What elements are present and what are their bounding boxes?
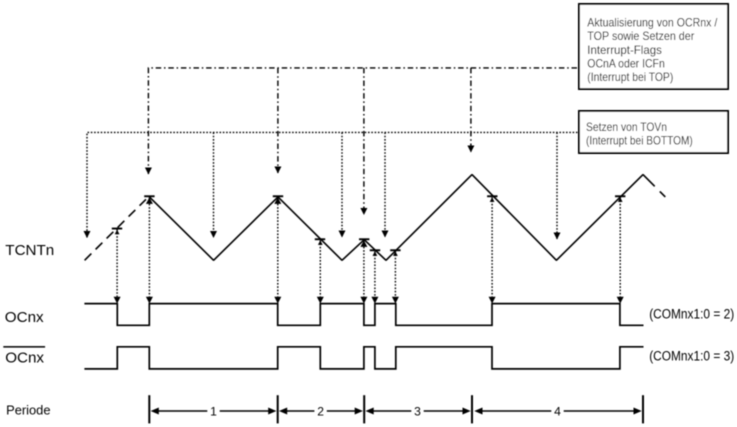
svg-text:OCnx: OCnx bbox=[5, 309, 44, 326]
node: period divider bar 1 bbox=[148, 395, 150, 423]
wire: compare connector 4 bbox=[319, 240, 321, 297]
wire: period 3 arrow line right bbox=[424, 410, 464, 412]
SECTION:LABELS bbox=[586, 16, 718, 148]
arrowhead: period 4 right bbox=[634, 408, 642, 415]
arrowhead: down at OCnx 8 bbox=[489, 297, 496, 304]
node: compare tick on rising slope to tall peak 2 bbox=[615, 195, 625, 197]
arrowhead: up at peak 2 tick bbox=[274, 197, 281, 204]
node: period divider bar 4 bbox=[471, 395, 473, 423]
arrowhead: TOP event at small peak bbox=[360, 208, 367, 215]
arrowhead: period 2 left bbox=[279, 408, 287, 415]
svg-text:2: 2 bbox=[317, 405, 324, 419]
svg-text:TOP sowie Setzen der: TOP sowie Setzen der bbox=[587, 29, 694, 43]
arrowhead: BOTTOM event at valley 1 bbox=[210, 231, 217, 238]
arrowhead: down at OCnx 1 bbox=[114, 297, 121, 304]
arrowhead: down at OCnx 4 bbox=[317, 297, 324, 304]
wire: dash-dot horizontal event line (OCRnx/TOP update) bbox=[148, 68, 578, 174]
wire: dotted arrow drop to valley 2a bbox=[341, 132, 343, 237]
svg-text:(COMnx1:0 = 3): (COMnx1:0 = 3) bbox=[649, 349, 734, 364]
node: period divider bar 3 bbox=[363, 395, 365, 423]
arrowhead: BOTTOM event at valley 3 bbox=[554, 233, 561, 240]
svg-text:TCNTn: TCNTn bbox=[5, 242, 54, 259]
arrowhead: up at tick 9 bbox=[618, 197, 623, 202]
wire: dotted arrow drop to valley 1 bbox=[213, 132, 215, 237]
arrowhead: up at small peak tick bbox=[360, 240, 367, 247]
arrowhead: up at tick 4 bbox=[318, 240, 323, 245]
wire: OCnx output waveform (COMnx1:0 = 2) bbox=[84, 304, 643, 326]
wire: TCNTn trailing dash bbox=[660, 191, 666, 197]
SECTION:AXIS bbox=[148, 395, 644, 423]
wire: compare connector 5 (small peak) bbox=[363, 240, 365, 297]
arrowhead: up at peak 1 tick bbox=[146, 197, 153, 204]
node: period divider bar 5 bbox=[642, 395, 644, 423]
wire: period 2 arrow line left bbox=[286, 410, 314, 412]
wire: period 1 arrow line right bbox=[220, 410, 270, 412]
wire: dash-dot arrow drop to tall peak bbox=[470, 68, 472, 152]
node: TOP tick at peak 2 bbox=[273, 195, 283, 197]
wire: compare connector 6 bbox=[374, 251, 376, 297]
svg-text:(Interrupt bei TOP): (Interrupt bei TOP) bbox=[587, 70, 673, 84]
svg-text:OCnA oder ICFn: OCnA oder ICFn bbox=[587, 57, 665, 71]
wire: compare connector 7 bbox=[394, 251, 396, 297]
wire: period 3 arrow line left bbox=[373, 410, 412, 412]
wire: dash-dot arrow drop to small peak bbox=[363, 68, 365, 215]
node: compare tick on falling slope after tall peak bbox=[487, 195, 497, 197]
svg-text:OCnx: OCnx bbox=[5, 349, 44, 366]
wire: dotted arrow drop to valley 2b bbox=[384, 132, 386, 237]
SECTION:CONNECTORS bbox=[117, 197, 620, 297]
wire: compare connector 1 bbox=[116, 230, 118, 297]
wire: TCNTn triangle waveform bbox=[149, 175, 654, 261]
arrowhead: BOTTOM event at start bbox=[84, 231, 91, 238]
arrowhead: down at OCnx 2 bbox=[146, 297, 153, 304]
wire: dotted horizontal event line (TOVn set) bbox=[87, 132, 578, 237]
node: TOP tick at small peak bbox=[359, 238, 369, 240]
wire: period 2 arrow line right bbox=[327, 410, 356, 412]
arrowhead: TOP event at tall peak bbox=[467, 146, 474, 153]
node: period divider bar 2 bbox=[277, 395, 279, 423]
arrowhead: period 1 left bbox=[151, 408, 159, 415]
wire: period 4 arrow line left bbox=[481, 410, 552, 412]
arrowhead: period 1 right bbox=[268, 408, 276, 415]
wire: dash-dot arrow drop to peak 2 bbox=[277, 68, 279, 173]
svg-text:1: 1 bbox=[210, 405, 217, 419]
arrowhead: period 3 left bbox=[366, 408, 374, 415]
svg-text:(Interrupt bei BOTTOM): (Interrupt bei BOTTOM) bbox=[586, 133, 693, 147]
arrowhead: period 2 right bbox=[355, 408, 363, 415]
wire: compare connector 8 bbox=[491, 197, 493, 297]
node: compare tick on dashed slope bbox=[112, 228, 122, 230]
arrowhead: up at tick 6 bbox=[373, 251, 378, 256]
arrowhead: down at OCnx 3 bbox=[274, 297, 281, 304]
arrowhead: up at tick 8 bbox=[490, 197, 495, 202]
SECTION:WAVE bbox=[85, 175, 666, 261]
wire: compare connector 9 bbox=[619, 197, 621, 297]
node: TOP tick at peak 1 bbox=[144, 195, 154, 197]
arrowhead: down at OCnx 5 bbox=[360, 297, 367, 304]
arrowhead: BOTTOM event at valley 2a bbox=[339, 231, 346, 238]
wire: dotted arrow drop to valley 3 bbox=[556, 132, 558, 239]
arrowhead: up at tick 1 bbox=[115, 230, 120, 235]
node: callout box OCRnx/TOP update bbox=[579, 4, 728, 89]
arrowhead: TOP event at peak 2 bbox=[274, 167, 281, 174]
arrowhead: up at tick 7 bbox=[393, 251, 398, 256]
arrowhead: down at OCnx 6 bbox=[371, 297, 378, 304]
svg-text:Interrupt-Flags: Interrupt-Flags bbox=[587, 43, 662, 57]
node: callout box TOVn set bbox=[579, 111, 728, 153]
svg-text:(COMnx1:0 = 2): (COMnx1:0 = 2) bbox=[649, 306, 734, 321]
wire: period 1 arrow line left bbox=[158, 410, 208, 412]
arrowhead: period 4 left bbox=[474, 408, 482, 415]
svg-text:4: 4 bbox=[554, 405, 561, 419]
SECTION:EVENTLINES bbox=[87, 68, 578, 239]
arrowhead: period 3 right bbox=[463, 408, 471, 415]
arrowhead: down at OCnx 7 bbox=[392, 297, 399, 304]
wire: period 4 arrow line right bbox=[564, 410, 635, 412]
node: compare tick after small peak bbox=[370, 249, 380, 251]
arrowhead: down at OCnx 9 bbox=[617, 297, 624, 304]
svg-text:3: 3 bbox=[414, 405, 421, 419]
arrowhead: TOP event at peak 1 bbox=[145, 168, 152, 175]
wire: TCNTn dashed rising slope bbox=[85, 199, 146, 260]
svg-text:Setzen von TOVn: Setzen von TOVn bbox=[586, 120, 667, 134]
node: compare tick on rising slope to tall peak bbox=[390, 249, 400, 251]
wire: inverted OCnx output waveform (COMnx1:0 = 3) bbox=[84, 347, 643, 369]
node: overline of inverted OCnx label bbox=[3, 346, 45, 348]
svg-text:Periode: Periode bbox=[6, 403, 50, 418]
wire: compare connector 3 (peak 2) bbox=[277, 197, 279, 297]
arrowhead: BOTTOM event at valley 2b bbox=[382, 231, 389, 238]
wire: compare connector 2 (peak 1) bbox=[148, 197, 150, 297]
node: compare tick on falling slope after peak 2 bbox=[315, 238, 325, 240]
svg-text:Aktualisierung von OCRnx /: Aktualisierung von OCRnx / bbox=[587, 16, 718, 30]
SECTION:SQUAREWAVES bbox=[84, 304, 643, 369]
